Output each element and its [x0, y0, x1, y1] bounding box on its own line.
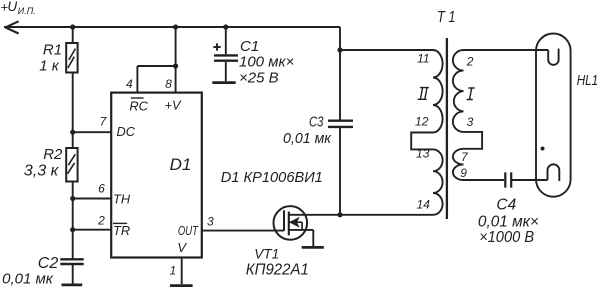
resistor R1: [66, 43, 77, 73]
svg-text:C1: C1: [240, 38, 259, 55]
svg-text:0,01 мк: 0,01 мк: [283, 130, 332, 147]
svg-text:14: 14: [417, 198, 431, 212]
junction: pin 4 link to pin 8 wire: [173, 63, 178, 68]
svg-text:9: 9: [460, 166, 467, 180]
wire: R2 to C2: [72, 182, 74, 260]
transformer T1 winding II section 11-12: [433, 50, 443, 133]
svg-text:HL1: HL1: [577, 72, 599, 89]
wire: node to TH pin 6: [73, 198, 112, 200]
wire: node to TR pin 2: [73, 229, 112, 231]
svg-text:7: 7: [461, 150, 469, 164]
svg-text:2: 2: [97, 213, 105, 227]
wire: OUT pin 3 to gate: [202, 230, 284, 232]
label winding II: [418, 88, 429, 100]
svg-text:R2: R2: [43, 146, 63, 163]
label +U и.п.: [0, 0, 35, 16]
svg-text:3: 3: [207, 214, 214, 228]
svg-text:DC: DC: [117, 124, 136, 139]
lamp HL1 gas-fill dot: [541, 147, 545, 151]
svg-text:3: 3: [467, 115, 474, 129]
capacitor C4: [505, 172, 511, 187]
junction: rail to R1: [70, 24, 75, 29]
wire: rail corner down to C3: [339, 27, 341, 120]
IC U1 timer D1 body: [111, 93, 202, 258]
wire: pin 8 to rail: [175, 27, 177, 93]
svg-text:C4: C4: [496, 197, 516, 214]
svg-text:VT1: VT1: [254, 245, 279, 261]
wire: C3 bottom to drain node: [339, 128, 341, 215]
wire: +U supply rail: [4, 26, 340, 28]
svg-text:11: 11: [417, 51, 429, 65]
svg-text:OUT: OUT: [178, 223, 199, 238]
wire: pin 4 to pin 8 link: [137, 65, 175, 67]
svg-text:13: 13: [416, 147, 430, 161]
wire: rail to R1: [72, 27, 74, 43]
svg-text:TH: TH: [113, 192, 131, 207]
VT1 substrate arrow: [289, 217, 300, 228]
capacitor C3: [328, 121, 353, 127]
svg-text:V: V: [177, 240, 187, 255]
svg-text:+V: +V: [164, 97, 181, 112]
transformer T1 winding II section 13-14: [433, 149, 443, 214]
svg-text:0,01 мк×: 0,01 мк×: [478, 214, 539, 231]
wire: drain to winding pin 14: [289, 214, 433, 216]
svg-text:8: 8: [165, 77, 172, 91]
junction: C3 branch to pin 11 wire: [337, 47, 342, 52]
wire: C4 to lamp bottom electrode: [512, 179, 548, 181]
transformer T1 core: [446, 38, 448, 219]
ground below pin 1: [170, 284, 193, 287]
supply arrow: [5, 21, 18, 33]
svg-text:3,3 к: 3,3 к: [24, 162, 60, 179]
svg-text:И.П.: И.П.: [18, 6, 36, 16]
svg-text:2: 2: [466, 55, 474, 69]
junction: drain node to C3 branch: [337, 212, 342, 217]
svg-text:RC: RC: [129, 98, 148, 113]
svg-text:4: 4: [126, 77, 133, 91]
capacitor C2: [60, 259, 83, 284]
overline TR: [113, 222, 127, 224]
wire: jog pin 12 to pin 13: [411, 133, 433, 150]
svg-text:U: U: [7, 0, 17, 14]
svg-text:×1000 В: ×1000 В: [479, 229, 534, 246]
svg-text:7: 7: [100, 115, 108, 129]
wire: pin 2 to lamp top electrode: [464, 49, 549, 51]
svg-text:КП922А1: КП922А1: [246, 261, 309, 278]
wire: pin 4 stub: [136, 66, 138, 93]
junction: divider to TR: [70, 227, 75, 232]
svg-text:12: 12: [415, 114, 429, 128]
svg-text:C3: C3: [309, 114, 324, 131]
capacitor C1 polarized: [213, 43, 238, 81]
wire: pin 9 to C4: [464, 179, 505, 181]
junction: rail to pin 8: [173, 24, 178, 29]
label winding I: [467, 88, 475, 100]
svg-text:0,01 мк: 0,01 мк: [2, 271, 54, 288]
svg-text:100 мк×: 100 мк×: [239, 54, 294, 71]
wire: R1 to R2: [72, 73, 74, 149]
junction: divider to TH: [70, 196, 75, 201]
transistor VT1: [274, 206, 314, 246]
wire: jog pin 3 to pin 7: [464, 132, 483, 149]
svg-text:1: 1: [169, 264, 176, 278]
svg-text:T 1: T 1: [437, 9, 456, 26]
junction: rail to C1: [223, 24, 228, 29]
transformer T1 winding I section 7-9: [453, 149, 464, 180]
ground below C2: [62, 283, 83, 286]
wire: pin 1 down: [181, 258, 183, 285]
svg-text:D1 КР1006ВИ1: D1 КР1006ВИ1: [221, 169, 323, 186]
ground below VT1 source: [302, 246, 324, 249]
svg-text:6: 6: [98, 181, 105, 195]
resistor R2: [66, 148, 77, 182]
lamp HL1 top filament: [548, 49, 558, 65]
overline RC: [131, 97, 144, 99]
ground below C1: [212, 81, 235, 84]
junction: divider to DC: [70, 130, 75, 135]
svg-text:×25 В: ×25 В: [239, 70, 279, 87]
wire: node to winding pin 11: [340, 49, 433, 51]
lamp HL1 bottom filament: [548, 164, 560, 181]
svg-text:TR: TR: [113, 223, 130, 238]
transformer T1 winding I section 2-3: [453, 50, 464, 132]
lamp HL1 tube body: [536, 34, 571, 197]
wire: node to DC pin 7: [73, 131, 112, 133]
svg-text:R1: R1: [43, 41, 62, 58]
wire: rail to C1: [225, 27, 227, 54]
svg-text:1 к: 1 к: [39, 57, 60, 74]
svg-text:D1: D1: [170, 155, 192, 174]
